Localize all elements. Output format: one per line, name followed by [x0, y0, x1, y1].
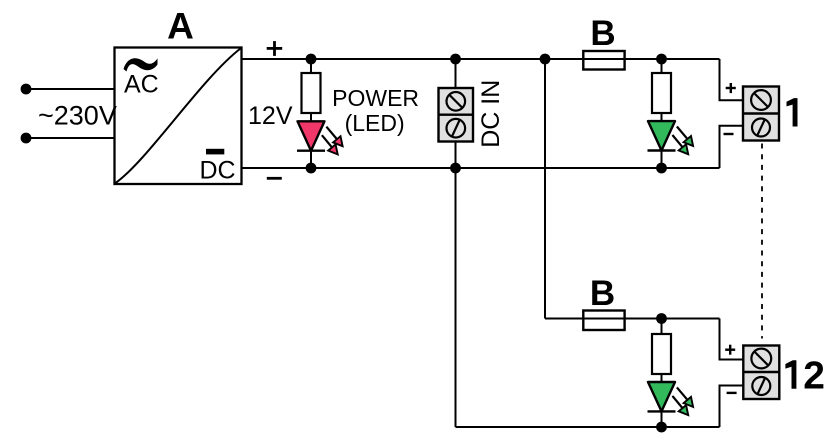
svg-text:2: 2 [803, 355, 825, 398]
svg-text:AC: AC [124, 71, 159, 99]
svg-text:B: B [590, 14, 615, 53]
svg-text:(LED): (LED) [345, 110, 405, 136]
svg-text:B: B [590, 274, 615, 313]
svg-text:DC: DC [200, 157, 236, 185]
svg-text:~230V: ~230V [38, 100, 117, 130]
svg-text:A: A [167, 5, 194, 46]
svg-text:POWER: POWER [332, 85, 419, 111]
svg-text:12V: 12V [248, 102, 293, 130]
svg-text:DC IN: DC IN [477, 80, 505, 148]
